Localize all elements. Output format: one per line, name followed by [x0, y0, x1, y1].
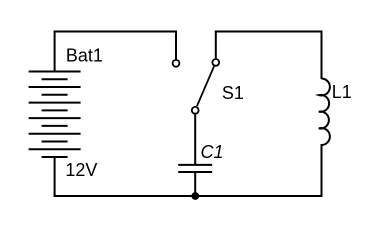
- capacitor C1: [178, 165, 212, 172]
- wire: switch common down to capacitor top plate: [194, 114, 196, 165]
- wire: right branch down to inductor top: [321, 31, 323, 80]
- wire: top-left horizontal from battery to switch left terminal: [54, 31, 177, 33]
- svg-text:C1: C1: [201, 142, 224, 162]
- svg-text:S1: S1: [222, 83, 244, 103]
- junction node: capacitor / bottom rail: [191, 192, 199, 200]
- switch S1: [173, 59, 220, 114]
- wire: drop to switch right terminal: [215, 31, 217, 59]
- wire: top-right horizontal from switch right terminal to inductor branch: [215, 31, 323, 33]
- switch S1 blade: [197, 66, 214, 106]
- wire: battery negative lead down to bottom rail: [54, 157, 56, 197]
- switch S1 common terminal circle: [192, 107, 199, 114]
- wire: bottom rail: [54, 195, 323, 197]
- battery Bat1: [29, 72, 81, 158]
- switch S1 left terminal circle: [173, 60, 180, 67]
- wire: drop to switch left terminal: [175, 31, 177, 60]
- svg-text:12V: 12V: [65, 160, 97, 180]
- svg-text:L1: L1: [332, 82, 352, 102]
- wire: battery positive lead (top of battery up): [54, 32, 56, 73]
- wire: inductor bottom down to bottom rail: [321, 144, 323, 197]
- switch S1 right terminal circle: [212, 59, 219, 66]
- svg-text:Bat1: Bat1: [66, 45, 103, 65]
- inductor L1: [319, 79, 330, 146]
- wire: capacitor bottom plate down to bottom rail: [194, 172, 196, 196]
